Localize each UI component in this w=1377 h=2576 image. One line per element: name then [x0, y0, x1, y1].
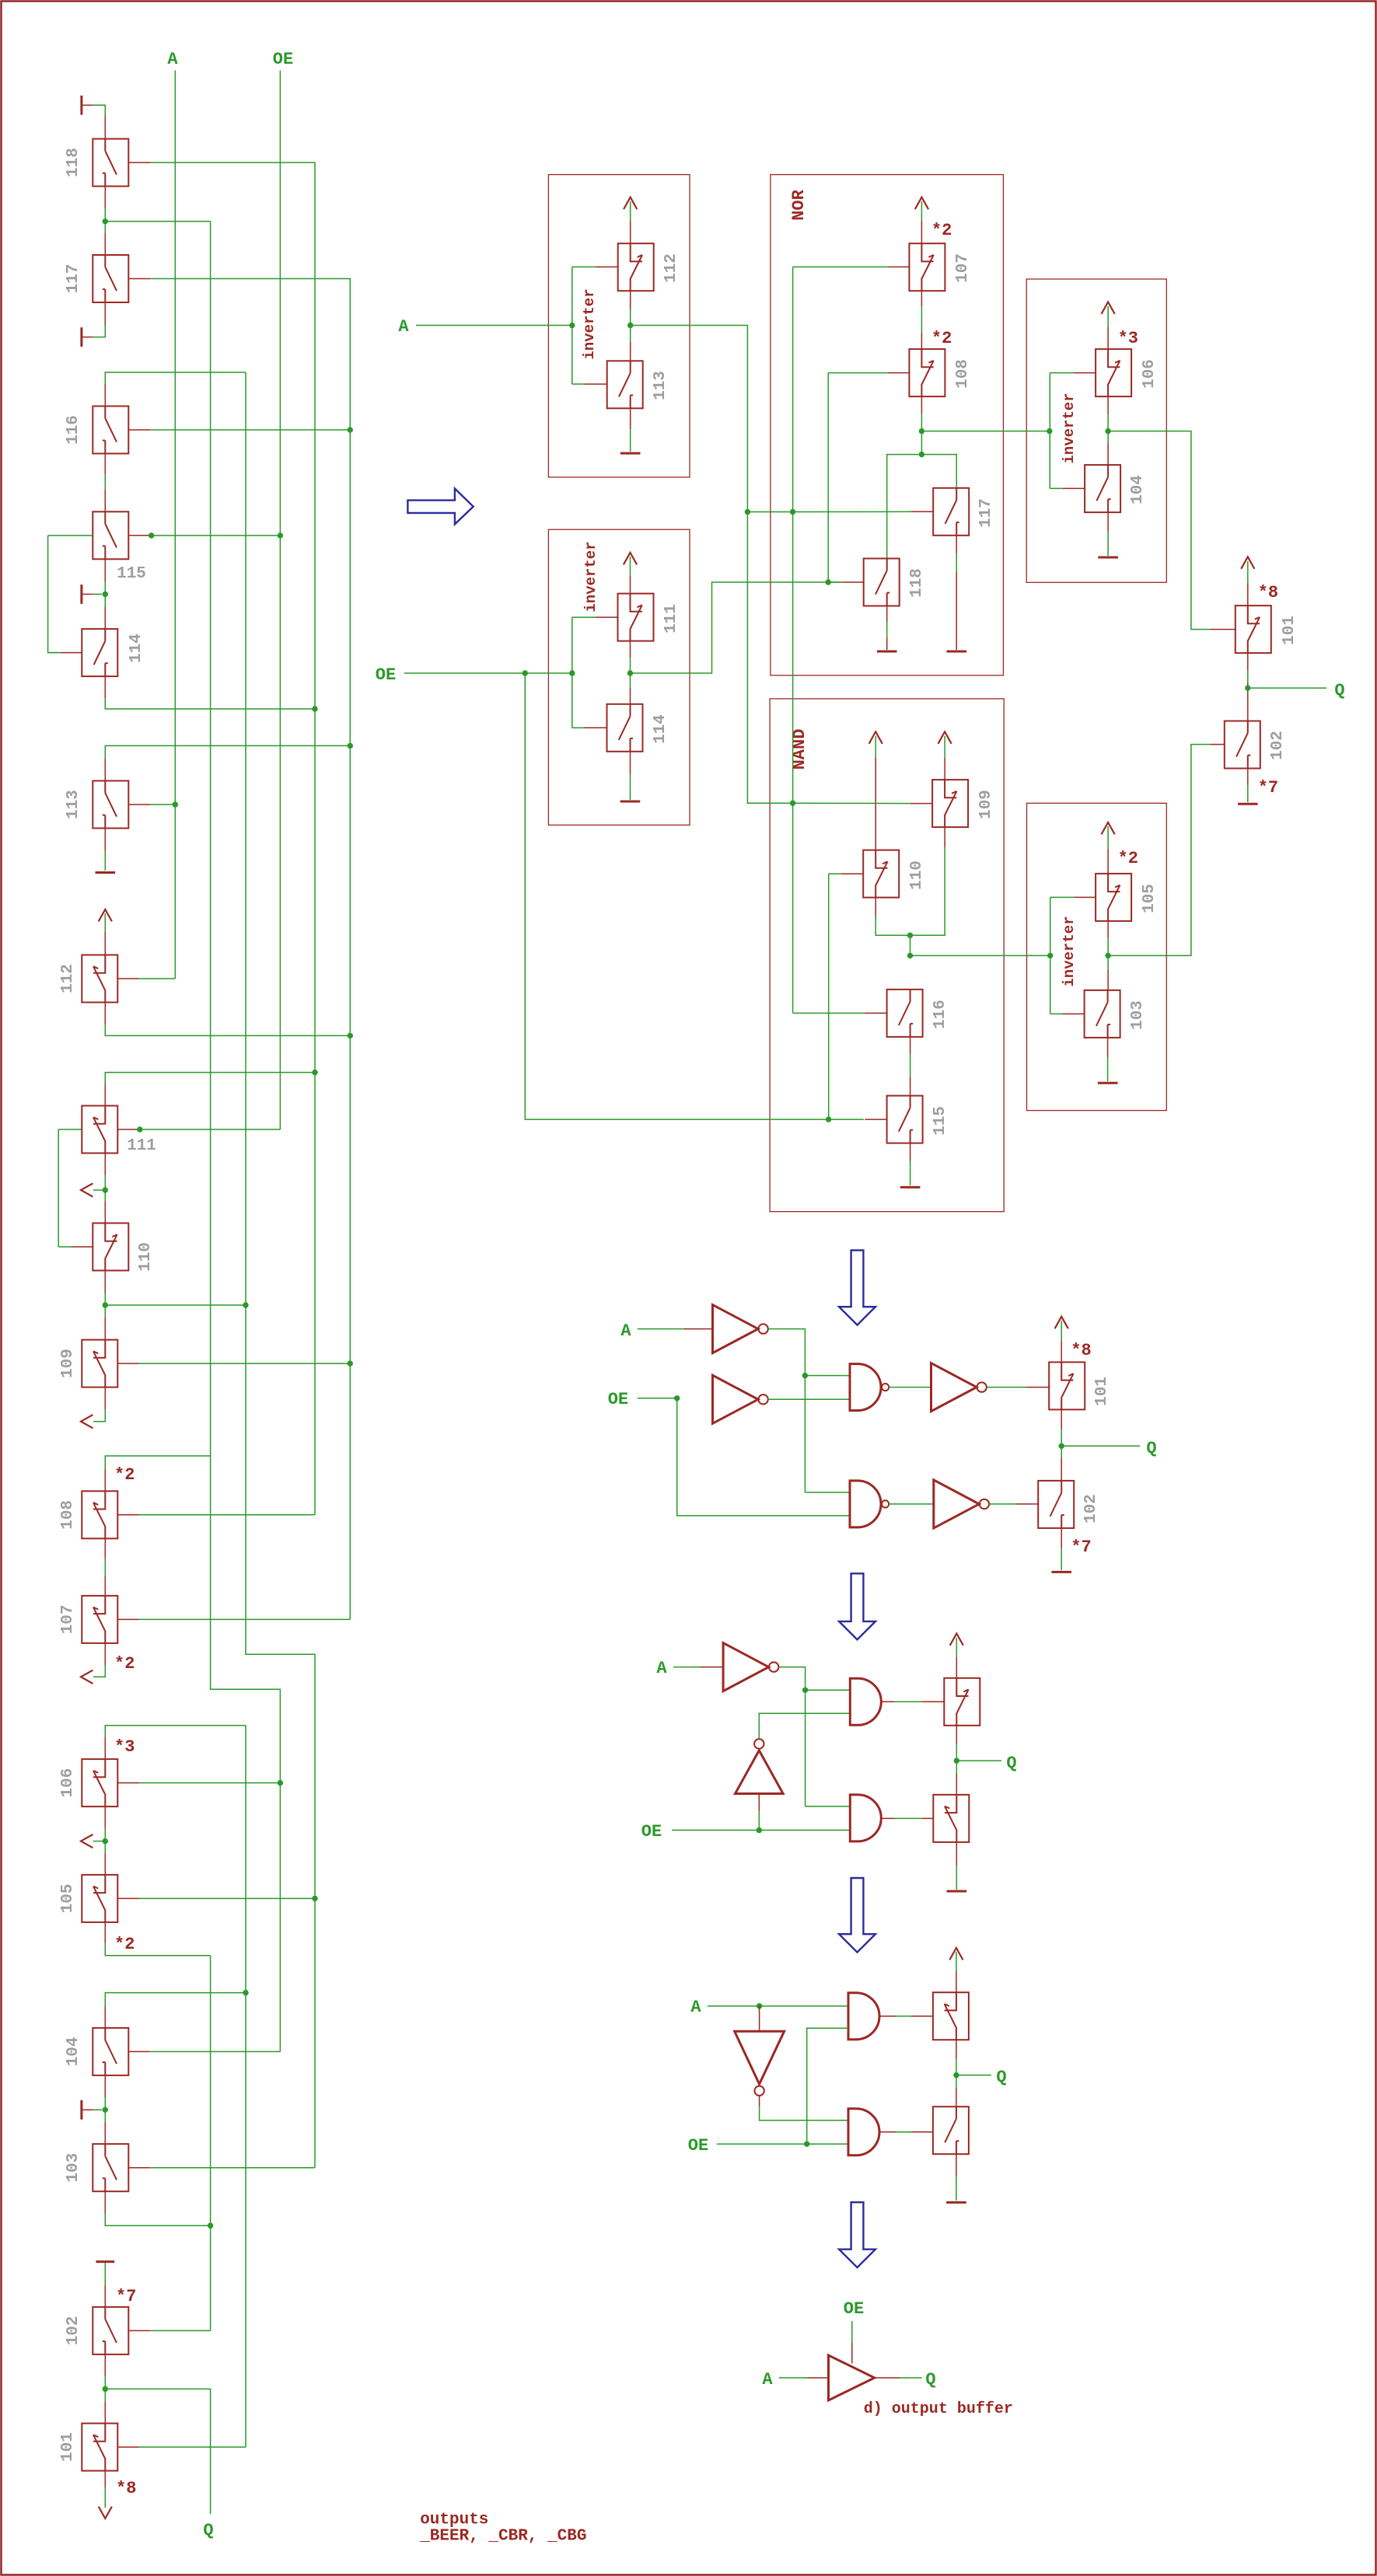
wire 101c top [1247, 561, 1249, 583]
svg-text:104: 104 [65, 2037, 82, 2066]
svg-text:NOR: NOR [789, 189, 809, 220]
svg-text:inverter: inverter [582, 541, 599, 612]
svg-text:*3: *3 [114, 1737, 135, 1757]
node dot Q-tap [103, 2386, 108, 2392]
node dot NOR out [919, 428, 924, 434]
wire gate110c down [828, 874, 830, 1119]
svg-text:107: 107 [59, 1604, 77, 1634]
nand gate 1 diag-b [850, 1364, 881, 1411]
wire buf2-gate102 diag-b [989, 1503, 1015, 1505]
wire NANDout-inv gates vertical [1050, 897, 1051, 1014]
power VCC 104-103 [80, 2100, 82, 2120]
wire Q right [1248, 687, 1326, 689]
inverter OE diag-b [713, 1375, 759, 1423]
wire NAND out [910, 955, 1050, 956]
transistor 108 [82, 1491, 117, 1538]
wire 114c ground stem [630, 752, 631, 774]
wire net A vertical [174, 71, 176, 979]
wire gate 115c stub [865, 1119, 886, 1120]
wire NOR out [921, 431, 1049, 432]
node dot inv3 out [1105, 428, 1110, 434]
vcc arrow above 112 [99, 909, 112, 921]
output arrow 3 [81, 1670, 93, 1684]
svg-text:102: 102 [1269, 731, 1287, 760]
ground 102 diag-b [1051, 1571, 1071, 1573]
wire OE diag-c [672, 1830, 850, 1831]
wire 118c ground stem [886, 606, 888, 623]
transistor 113 [93, 781, 128, 829]
wire 104 top [105, 1993, 246, 2006]
wire Ainv-out diag-c [778, 1667, 805, 1806]
transistor 109 [82, 1340, 117, 1387]
wire 103c ground stem [1107, 1038, 1109, 1057]
wire 112c top [630, 201, 631, 221]
ground diag-d [946, 2201, 966, 2204]
node dot gate113-A [173, 801, 178, 807]
svg-text:115: 115 [931, 1106, 949, 1136]
svg-text:111: 111 [662, 604, 680, 634]
wire 113c ground stem [630, 408, 631, 429]
svg-text:105: 105 [1141, 884, 1159, 913]
wire and1-t1 diag-d [879, 2016, 896, 2017]
wire 104c ground stem [1107, 512, 1109, 532]
transistor 104 [93, 2028, 128, 2075]
node dot 316-1679 [243, 1302, 248, 1307]
transistor 101 [82, 2424, 117, 2471]
wire OE diag-d [717, 2143, 848, 2145]
svg-text:109: 109 [59, 1349, 77, 1378]
transistor 112 [82, 955, 117, 1003]
transistor 114 [82, 629, 117, 676]
svg-text:104: 104 [1129, 475, 1147, 504]
svg-text:102: 102 [65, 2316, 82, 2345]
wire buf1-gate101 diag-b [987, 1387, 1026, 1388]
wire Q diag-b [1061, 1445, 1140, 1447]
transistor 101 copy [1235, 606, 1271, 653]
node dot 450-1332 [348, 1033, 353, 1038]
wire drain 106-105 [104, 1806, 106, 1828]
transistor 111 [82, 1106, 117, 1154]
vcc arrow t1 diag-d [949, 1948, 963, 1960]
wire gate 101 stub [117, 2446, 139, 2448]
svg-text:103: 103 [65, 2153, 82, 2183]
wire gate 108 stub [117, 1514, 139, 1516]
transistor 117 copy [933, 488, 969, 536]
wire t2 ground stem diag-d [956, 2154, 957, 2176]
node dot A diag-d [757, 2003, 762, 2009]
wire gate 114 stub [60, 652, 82, 654]
transistor 103 [93, 2144, 128, 2191]
node dot A-inv out [627, 323, 633, 328]
wire drain 116-115 [104, 454, 106, 475]
vcc arrow 101c [1241, 557, 1254, 568]
wire gate 108c stub [888, 372, 910, 374]
svg-text:_BEER, _CBR, _CBG: _BEER, _CBR, _CBG [419, 2528, 586, 2546]
svg-text:*2: *2 [114, 1654, 135, 1674]
wire 101b-102b [1061, 1409, 1062, 1429]
wire gate 114c [572, 727, 584, 728]
svg-text:*8: *8 [1258, 583, 1278, 602]
transistor 103 copy [1085, 990, 1120, 1038]
wire Q tap [105, 2389, 210, 2514]
svg-text:outputs: outputs [420, 2511, 488, 2529]
svg-text:A: A [398, 317, 409, 337]
and gate 1 diag-c [850, 1678, 881, 1725]
wire A buffer [779, 2377, 807, 2379]
svg-text:113: 113 [652, 371, 669, 400]
wire 102b ground stem [1061, 1528, 1062, 1548]
wire gate 105c [1050, 896, 1075, 898]
bubble inverter-down diag-d [754, 2086, 764, 2096]
wire gate 113 [150, 804, 175, 805]
svg-text:101: 101 [1093, 1377, 1111, 1406]
wire gates 112/113 vertical [571, 267, 573, 384]
power VCC 115-114 [80, 585, 82, 604]
wire 102 top [104, 2263, 106, 2285]
wire and2-t2 diag-d [879, 2131, 896, 2133]
wire drain 110-109 [104, 1271, 106, 1293]
wire invup stem diag-c [758, 1794, 760, 1812]
wire drain 104-103 [104, 2075, 106, 2097]
transistor 101 diag-b [1049, 1362, 1085, 1409]
node dot Ainv diag-c [802, 1688, 808, 1693]
node dot 405-2442 [312, 1896, 317, 1901]
transistor 114 copy [607, 704, 643, 752]
wire 105 bottom [104, 1922, 106, 1943]
node dot Q diag-b [1059, 1443, 1064, 1449]
transistor 109 copy [932, 780, 968, 827]
wire net N316b [245, 1726, 246, 2447]
wire gate 111 to OE [139, 1129, 280, 1130]
node dot OE diag-c [757, 1827, 762, 1833]
wire A diag-b [638, 1328, 684, 1330]
wire gate 115 left [48, 535, 93, 536]
svg-text:*2: *2 [931, 221, 952, 240]
transistor 106 [82, 1759, 117, 1806]
svg-text:Q: Q [925, 2370, 935, 2389]
svg-text:101: 101 [59, 2432, 77, 2462]
svg-text:105: 105 [59, 1883, 77, 1913]
wire gate 103 [150, 2167, 315, 2169]
wire drain 108-107 [104, 1538, 106, 1559]
wire net N270b [210, 1956, 211, 2331]
tri-state buffer [829, 2355, 875, 2400]
svg-text:A: A [620, 1321, 631, 1341]
block box NOR [771, 175, 1004, 675]
wire gate 101c stub [1211, 629, 1236, 630]
node dot OE diag-b [674, 1395, 680, 1401]
wire 101b top [1061, 1321, 1062, 1341]
wire gate 107 [139, 1618, 350, 1620]
svg-text:A: A [656, 1659, 667, 1678]
node dot 316-2563 [243, 1990, 248, 1995]
wire gate 103 stub [128, 2167, 150, 2169]
block box NAND [770, 699, 1004, 1212]
svg-text:*2: *2 [931, 329, 952, 348]
flow arrow 1 (right) [407, 489, 473, 525]
wire 110c top [875, 736, 876, 758]
svg-text:inverter: inverter [581, 288, 598, 359]
transistor 110 [93, 1223, 128, 1271]
block box inverter A [548, 175, 690, 477]
node dot 450-959 [348, 743, 353, 749]
transistor upper diag-c [944, 1678, 980, 1726]
wire net Aprime vertical [792, 267, 794, 1013]
wire drain 111-110 [104, 1154, 106, 1176]
wire net 118-gate lower [314, 709, 316, 1515]
wire gate 110 [58, 1246, 71, 1248]
svg-text:A: A [690, 1998, 701, 2017]
wire gate 106 [139, 1782, 280, 1784]
wire gate 103c [1050, 1013, 1062, 1014]
transistor upper diag-d [933, 1992, 969, 2040]
inverter up diag-c [736, 1750, 784, 1794]
node dot inv4 out [1105, 953, 1110, 958]
vcc arrow 107c [915, 197, 928, 209]
wire gate 112 to A [139, 978, 175, 979]
node dot 117c/118c drains [919, 452, 924, 457]
wire out4 [93, 1841, 105, 1842]
wire gate 116c [793, 1012, 865, 1014]
wire gate 111c [572, 616, 596, 618]
wire and2-t2 diag-c [881, 1817, 894, 1819]
nand gate 2 diag-b [850, 1481, 881, 1527]
wire gate 115 stub [128, 535, 150, 536]
wire 113 top [105, 745, 350, 759]
wire A-inv out [631, 326, 793, 804]
wire drain 106c-104c [1107, 396, 1109, 414]
ground below 113 [96, 871, 116, 874]
svg-text:106: 106 [59, 1768, 77, 1798]
flow arrow 3 (down) [839, 1573, 875, 1639]
wire gate 109c [793, 802, 911, 804]
node dot Q right [1245, 685, 1250, 690]
wire nand1-buf1 diag-b [889, 1387, 931, 1388]
svg-text:*2: *2 [114, 1465, 135, 1485]
flow arrow 2 (down) [839, 1250, 875, 1325]
wire 105c top [1107, 826, 1109, 849]
vcc arrow 105c [1102, 822, 1115, 834]
node dot power 115/114 [103, 592, 108, 597]
wire nand2-buf2 diag-b [889, 1503, 934, 1505]
wire t1 top diag-c [956, 1638, 957, 1657]
svg-text:OE: OE [273, 50, 293, 69]
wire net N270a [211, 222, 281, 2052]
transistor 115 [93, 511, 128, 559]
svg-text:108: 108 [954, 359, 972, 389]
wire gate 101 [139, 2446, 246, 2448]
transistor 102 copy [1225, 721, 1260, 769]
output arrow down [99, 2507, 112, 2518]
node dot out4 [103, 1838, 108, 1844]
vcc arrow 110c [869, 731, 882, 743]
wire 113 ground stem [104, 829, 106, 851]
wire power3 [93, 593, 102, 595]
wire gate 102 [150, 2330, 210, 2331]
output arrow 4 [81, 1834, 93, 1848]
wire inv-out diag-d [759, 2096, 760, 2107]
transistor 110 copy [863, 850, 899, 898]
wire gate 107c [793, 266, 888, 267]
wire 110c bottom [875, 898, 876, 917]
vcc arrow 109c [938, 731, 952, 743]
wire gate 118 stub [128, 162, 150, 163]
wire drain 111c-114c [630, 641, 631, 658]
transistor 117 [93, 255, 128, 302]
wire gate 110c stub [841, 873, 863, 874]
svg-text:108: 108 [59, 1500, 77, 1530]
svg-text:OE: OE [376, 665, 396, 685]
svg-text:inverter: inverter [1061, 393, 1078, 463]
wire t1-t2 diag-c [956, 1726, 957, 1744]
wire drain 102-101 [104, 2354, 106, 2376]
wire left loop2 [58, 1129, 59, 1247]
svg-text:109: 109 [977, 790, 995, 819]
transistor 112 copy [618, 243, 654, 291]
wire gate 112c [572, 266, 596, 267]
node dot 450-553 [348, 427, 353, 432]
svg-text:102: 102 [1082, 1494, 1100, 1524]
svg-text:110: 110 [137, 1242, 155, 1272]
transistor 116 [93, 407, 128, 454]
svg-text:A: A [167, 50, 178, 69]
and gate 2 diag-d [848, 2109, 879, 2155]
svg-text:*3: *3 [1118, 329, 1138, 348]
inverter down diag-d [735, 2031, 785, 2084]
vcc arrow 106c [1102, 302, 1115, 314]
wire OE buffer [851, 2321, 853, 2343]
node dot OE-NAND115 [826, 1116, 831, 1122]
wire 111 top [105, 1073, 315, 1084]
node dot NAND out [907, 953, 913, 958]
node dot Aprime-crossA [790, 509, 795, 515]
wire gate 104 stub [128, 2051, 150, 2052]
wire 114 bottom [104, 676, 106, 698]
wire inv3 out [1108, 431, 1211, 630]
wire A diag-d [708, 2005, 848, 2007]
svg-text:113: 113 [65, 790, 82, 819]
wire gate 102c stub [1211, 744, 1225, 745]
svg-text:110: 110 [908, 860, 926, 890]
node dot OEprime-749 [826, 579, 831, 585]
vcc arrow 101b [1055, 1317, 1068, 1328]
bubble inverter-up diag-c [754, 1739, 764, 1748]
wire inv4 out [1108, 745, 1211, 956]
node dot Ainv diag-b [802, 1373, 808, 1378]
svg-text:116: 116 [931, 1000, 949, 1029]
wire gate 112 stub [117, 978, 139, 979]
wire Q diag-c [956, 1760, 1001, 1761]
wire 107 bottom [104, 1643, 106, 1665]
node dot drain110 [103, 1302, 108, 1307]
svg-text:Q: Q [996, 2068, 1006, 2087]
wire t1 top diag-d [956, 1952, 957, 1971]
inverter A diag-c [723, 1643, 769, 1691]
svg-text:inverter: inverter [1061, 916, 1078, 986]
svg-text:*7: *7 [1071, 1538, 1091, 1557]
wire gate 105 stub [117, 1897, 139, 1899]
transistor 102 [93, 2307, 128, 2354]
wire gate 106c [1050, 372, 1074, 374]
svg-text:d) output buffer: d) output buffer [864, 2400, 1013, 2418]
wire 109c top [944, 736, 945, 758]
transistor 102 diag-b [1038, 1481, 1074, 1528]
wire gate 118 to bus [150, 162, 315, 709]
wire 101 bottom [104, 2471, 106, 2487]
svg-text:OE: OE [641, 1822, 662, 1841]
svg-text:Q: Q [1334, 681, 1344, 700]
wire drain 108c down [921, 396, 922, 414]
flow arrow 5 (down) [839, 2202, 875, 2267]
wire gate 118c stub [841, 581, 863, 583]
transistor 107 copy [909, 243, 945, 291]
output arrow 1 [81, 1183, 93, 1196]
wire 106c top [1107, 306, 1109, 326]
transistor 106 copy [1096, 349, 1131, 396]
svg-text:Q: Q [1146, 1439, 1156, 1458]
ground 104 copy [1098, 557, 1118, 559]
block box inverter NOR-out [1026, 279, 1166, 582]
svg-text:117: 117 [977, 498, 995, 528]
output arrow 2 [81, 1415, 93, 1428]
wire OE branch up diag-d [807, 2028, 848, 2144]
ground diag-c [947, 1890, 967, 1893]
svg-text:OE: OE [608, 1390, 628, 1409]
wire drain 105c-103c [1107, 921, 1109, 938]
node dot drain 118/117 [103, 218, 108, 224]
svg-text:Q: Q [203, 2521, 213, 2540]
svg-text:117: 117 [65, 264, 82, 294]
transistor 116 copy [887, 990, 923, 1037]
node dot Q diag-c [954, 1757, 959, 1763]
node dot 450-1754 [348, 1360, 353, 1366]
wire OEinv-out diag-b [768, 1398, 850, 1400]
wire 116 top [105, 372, 246, 384]
wire NAND out stem [910, 935, 911, 955]
transistor 118 [93, 139, 128, 187]
wire drain 112c-113c [630, 291, 631, 309]
wire gate 117c stub [911, 511, 933, 512]
wire gate 116 stub [128, 429, 150, 431]
node dot Q diag-d [953, 2072, 959, 2078]
wire out1 [93, 1189, 105, 1191]
node dot Aprime-1033 [790, 801, 795, 806]
wire gate 113 stub [128, 804, 150, 805]
wire 109c bottom [944, 827, 945, 847]
node dot power 104/103 [103, 2107, 108, 2113]
wire gate 113c [572, 383, 584, 385]
wire gate 108 [139, 1514, 315, 1516]
wire 106 top [105, 1726, 246, 1737]
svg-text:115: 115 [117, 565, 146, 583]
wire gate 106 stub [117, 1782, 139, 1784]
buffer 1 diag-b [931, 1363, 977, 1412]
ground 113 copy [620, 452, 641, 455]
node dot OE diag-d [804, 2141, 809, 2147]
node dot 405-1379 [312, 1070, 317, 1075]
wire 117c ground stem [956, 536, 957, 553]
wire 117 bottom [104, 302, 106, 325]
node dot gate111 [137, 1126, 142, 1132]
flow arrow 4 (down) [839, 1878, 875, 1953]
ground 103 copy [1098, 1082, 1118, 1084]
wire gate 108c [828, 372, 887, 374]
wire VCC to T118 [93, 105, 105, 116]
svg-text:112: 112 [662, 253, 680, 283]
svg-text:111: 111 [127, 1137, 156, 1155]
transistor 107 [82, 1596, 117, 1643]
wire gate 110 stub [71, 1246, 93, 1248]
